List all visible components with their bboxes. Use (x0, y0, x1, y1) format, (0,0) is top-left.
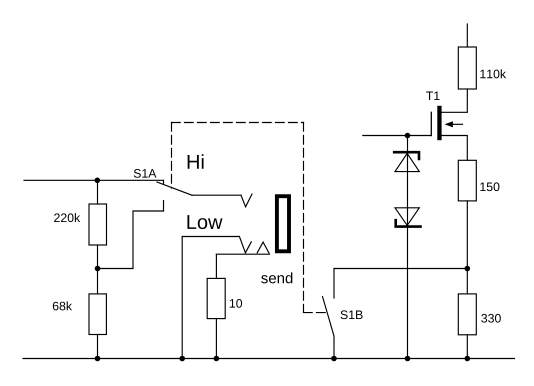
wire: 150 down to junction and 330 (466, 201, 468, 294)
node: rail junction at 68k (95, 356, 101, 362)
wire: gate lead of T1 (363, 135, 432, 137)
node: rail junction at S1B (331, 356, 337, 362)
label Hi (188, 154, 204, 168)
dashed key-assembly box left edge (171, 123, 173, 189)
node: junction gate / zener chain (405, 133, 411, 139)
wire: top-left horizontal input (24, 179, 164, 181)
wire: stub below 68k to rail (97, 335, 99, 359)
wire: Low node horizontal to key arm (182, 236, 239, 238)
switch S1A Low throw contact (163, 201, 165, 212)
label 330 (481, 314, 501, 323)
label T1 (426, 92, 439, 100)
dashed key-assembly box top edge (172, 122, 304, 124)
send key contact chevron right (257, 242, 269, 253)
dashed key-assembly box right edge (303, 123, 305, 313)
switch S1A arm (157, 182, 192, 195)
resistor 150 body (458, 160, 476, 201)
wire: S1B lower to rail (333, 336, 335, 359)
transistor T1 channel bar (437, 106, 441, 140)
label 10 (230, 299, 242, 308)
zener D2 triangle (395, 208, 419, 226)
node: rail junction at Low wire (179, 356, 185, 362)
resistor 330 body (458, 294, 476, 335)
node: junction between 220k and 68k (95, 266, 101, 272)
ground rail (23, 358, 515, 360)
label send (261, 272, 292, 283)
transistor T1 body arrow (445, 121, 453, 127)
label S1B (341, 310, 363, 319)
zener D1 triangle (395, 153, 419, 171)
label 68k (53, 301, 72, 310)
wire: gate node down through zeners to rail (407, 136, 409, 359)
zener D2 cathode bar (396, 220, 421, 226)
wire: Low node vertical down to rail (181, 237, 183, 359)
node: junction of input wire and 220k (95, 178, 101, 184)
node: rail junction at 330 (465, 356, 471, 362)
label 150 (480, 182, 499, 191)
transistor T1 drain lead (442, 89, 468, 112)
node: rail junction at zeners (405, 356, 411, 362)
wire: stub above 220k (97, 180, 99, 204)
switch S1B arm (323, 297, 335, 337)
label Low (187, 215, 222, 229)
wire: supply lead above 110k (466, 24, 468, 47)
wire: 10 ohm to rail (215, 319, 217, 359)
wire: 330 down to rail (466, 335, 468, 359)
wire: Low contact to 220k/68k junction (98, 211, 164, 269)
zener D1 cathode bar (394, 152, 419, 159)
resistor 110k body (458, 47, 476, 89)
label 110k (480, 69, 506, 78)
switch S1B fixed contact (333, 269, 335, 299)
send key arm diagonal (239, 237, 245, 253)
wire: stub below 220k (97, 245, 99, 269)
wire: S1A Hi throw line (192, 194, 241, 196)
wire: S1B to 150/330 junction (334, 268, 467, 270)
switch S1A Hi contact chevron (241, 194, 252, 207)
dashed mechanical link to S1B (304, 312, 328, 314)
label 220k (54, 213, 80, 222)
resistor 10 body (207, 278, 225, 318)
transistor T1 source lead (442, 136, 468, 161)
node: rail junction at 10 ohm (214, 356, 220, 362)
wire: stub above 68k (97, 269, 99, 294)
send key contact chevron left (245, 242, 251, 253)
node: junction at 150/330 (465, 266, 471, 272)
send key knob (277, 196, 289, 251)
resistor 68k body (89, 294, 106, 335)
transistor T1 gate bar (430, 112, 432, 135)
resistor 220k body (89, 204, 107, 245)
wire: key contact rail (216, 253, 269, 255)
wire: key rail down to 10 ohm (215, 254, 217, 278)
wire: body arrow line (453, 123, 463, 125)
switch S1A pole tick (163, 180, 165, 184)
label S1A (134, 169, 157, 178)
